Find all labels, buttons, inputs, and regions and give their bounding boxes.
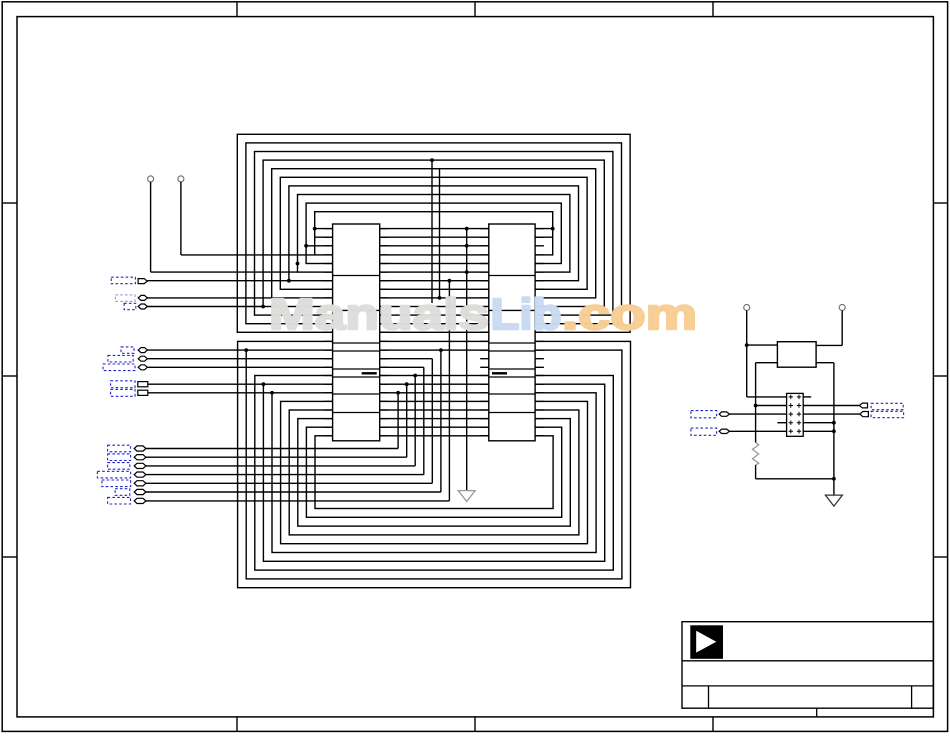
title block outline (682, 622, 933, 709)
resistor R1 zigzag (753, 443, 759, 466)
frame tick left y=203 (2, 202, 17, 204)
wire P5 to U1 (147, 358, 332, 360)
wire P11 horizontal (146, 465, 415, 467)
header J1 row3 wire left (730, 413, 787, 415)
wire bus loop ring 1 (lower block) (238, 341, 631, 587)
connector P13 dashed box (102, 480, 131, 487)
connector P18 pin tag (859, 403, 867, 408)
IC U2 right-side pin stubs (535, 229, 544, 436)
IC U1 section divider 7 (333, 393, 380, 395)
wire bus loop ring 7 (lower block) (289, 410, 579, 535)
connector P16 pin tag (719, 412, 729, 416)
connector P6 pin tag (138, 365, 147, 370)
connector P2 dashed box (115, 295, 135, 302)
wire riser column 2 (406, 384, 408, 457)
header J1 row2 wire right (803, 405, 859, 407)
wire bus loop ring 8 (lower block) (298, 419, 571, 526)
junction dot P7 wire (262, 382, 266, 386)
connector P18 dashed box (871, 403, 903, 409)
connector P19 pin tag (860, 412, 869, 417)
wire R1 bottom down (755, 465, 757, 479)
header J1 row2 wire left (756, 405, 787, 407)
junction dot riser 1 top (396, 391, 400, 395)
title block divider row1 (682, 660, 933, 662)
ground symbol right (825, 495, 842, 506)
junction dot U2 228.6 (551, 227, 555, 231)
IC U1 section divider 6 (333, 376, 380, 378)
wire bus loop ring 10 (lower block) (315, 436, 553, 509)
frame tick bottom x=237 (236, 717, 238, 732)
connector P9 dashed box (108, 445, 131, 452)
wire net VC vertical (448, 281, 450, 501)
IC U2 section divider 7 (489, 393, 535, 395)
header J1 row1 stub right (803, 396, 811, 398)
connector P4 pin tag (138, 348, 147, 353)
frame tick bottom x=713 (712, 717, 714, 732)
wire from terminal B down (180, 182, 182, 255)
connector P17 dashed box (691, 428, 717, 435)
IC U1 section divider 2 (333, 309, 380, 311)
terminal circle D (839, 305, 845, 311)
frame tick left y=376 (2, 375, 17, 377)
connector P1 dashed box (111, 277, 135, 284)
wire bus loop ring 3 (lower block) (255, 376, 614, 571)
connector P14 pin tag (134, 489, 146, 494)
op IC U2 body (489, 224, 535, 441)
IC U2 section divider 8 (489, 412, 535, 414)
wire P2 to bus ring 5 (147, 297, 271, 299)
header J1 pin cross marks (789, 395, 802, 434)
frame tick top x=237 (236, 2, 238, 17)
connector P3 pin tag (138, 304, 147, 309)
IC U1 section divider 3 (333, 342, 380, 344)
junction dot riser 6 top (439, 348, 443, 352)
wire bus loop ring 1 (upper block) (237, 134, 630, 332)
wire bus loop ring 4 (lower block) (263, 384, 604, 561)
wire terminal C down (746, 311, 748, 397)
connector P19 dashed box (871, 411, 904, 417)
wire bus loop ring 7 (upper block) (289, 186, 579, 281)
logo black square (690, 625, 723, 659)
connector P1 pin tag (138, 279, 147, 284)
junction dot VR row2 (754, 404, 758, 408)
wire riser column 6 (440, 350, 442, 492)
connector P16 dashed box (691, 411, 717, 418)
wire P9 horizontal (146, 448, 398, 450)
wire terminal D down (841, 311, 843, 346)
IC U2 section divider 1 (489, 275, 535, 277)
wire U2 to ring10 right y=228.6 (535, 228, 553, 230)
junction dot GND net 3 (465, 270, 469, 274)
wire net VR vertical (755, 363, 757, 443)
wire ring10 tap to U1 y=237.2 (315, 236, 333, 238)
wire terminal A to bus ring 8 (151, 271, 298, 273)
junction dot GND net 2 (465, 244, 469, 248)
connector P8 pin tag (138, 390, 148, 395)
IC U1 section divider 1 (333, 275, 380, 277)
connector P8 dashed box (111, 389, 135, 396)
frame tick right y=557 (933, 556, 947, 558)
wire bus loop ring 2 (lower block) (246, 350, 622, 579)
connector P5 pin tag (138, 356, 147, 361)
frame tick bottom x=475 (474, 717, 476, 732)
junction dot right vertical row5 (832, 429, 836, 433)
IC U2 section divider 3 (489, 342, 535, 344)
header J1 body (787, 393, 804, 436)
wire P13 horizontal (146, 482, 432, 484)
wire to T1 left (747, 344, 778, 346)
connector P4 dashed box (121, 347, 134, 353)
wire bus loop ring 4 (upper block) (263, 160, 604, 306)
wire U2 to ring10 right y=237.2 (535, 236, 553, 238)
junction dot VC top (448, 279, 452, 283)
junction dot 245.8 (304, 244, 308, 248)
wire P1 to bus ring 7 (147, 280, 289, 282)
junction dot VB bottom (438, 296, 442, 300)
wire riser column 1 (397, 393, 399, 449)
wire stub to U1 y=245.8 (306, 245, 333, 247)
wire riser column 3 (414, 376, 416, 466)
wire P4 to lower ring 2 (147, 349, 246, 351)
junction dot 228.6 (313, 227, 317, 231)
frame tick right y=376 (933, 375, 947, 377)
terminal circle A (148, 176, 154, 182)
wire U1 to riser column 5 y=358.7 (380, 358, 433, 360)
connector P13 pin tag (134, 481, 146, 486)
connector P10 pin tag (134, 455, 146, 460)
wire net VA vertical (431, 160, 433, 303)
ground symbol centre (458, 491, 475, 502)
title block cell divider left (708, 686, 710, 708)
wire bottom rail (756, 478, 834, 480)
svg-text:Manuals: Manuals (269, 291, 489, 339)
wire T1 left lower tap (756, 362, 778, 364)
wire bus loop ring 6 (lower block) (281, 401, 588, 543)
junction dot GND net 1 (465, 227, 469, 231)
wire P10 horizontal (146, 456, 407, 458)
frame tick top x=713 (712, 2, 714, 17)
wire ring10 tap to U1 y=228.6 (315, 228, 333, 230)
connector P5 dashed box (108, 355, 133, 362)
header J1 row4 wire right (803, 422, 834, 424)
wire bus loop ring 9 (upper block) (306, 203, 561, 263)
IC U2 section divider 6 (489, 376, 535, 378)
IC U1 section divider 5 (333, 368, 380, 370)
IC U2 section divider 4 (489, 350, 535, 352)
wire from terminal A down (150, 182, 152, 272)
connector P7 pin tag (138, 382, 148, 387)
frame tick right y=203 (933, 202, 947, 204)
wire net right vertical to ground (833, 363, 835, 495)
junction dot bottom rail (832, 477, 836, 481)
IC U1 left-side pin stubs (324, 229, 333, 436)
frame tick top x=475 (474, 2, 476, 17)
wire bus loop ring 5 (upper block) (272, 169, 596, 298)
connector P2 pin tag (138, 295, 147, 300)
wire P15 horizontal (146, 500, 450, 502)
terminal circle B (178, 176, 184, 182)
junction dot P4 wire (244, 348, 248, 352)
logo white triangle (696, 631, 716, 653)
op IC U1 body (333, 224, 380, 441)
junction dot P1 wire (287, 279, 291, 283)
wire P14 horizontal (146, 491, 441, 493)
connector P7 dashed box (111, 381, 135, 388)
wire P3 to bus ring 4 (147, 306, 263, 308)
wire bus loop ring 9 (lower block) (306, 427, 561, 517)
header J1 row5 wire left (730, 430, 787, 432)
connector P15 pin tag (134, 498, 146, 503)
connector P11 dashed box (108, 463, 130, 470)
IC U1 section divider 8 (333, 412, 380, 414)
wire net VB vertical (439, 169, 441, 298)
connector P10 dashed box (108, 454, 131, 461)
wire bus loop ring 2 (upper block) (246, 143, 622, 324)
svg-text:.com: .com (562, 291, 697, 339)
IC U1 label bar (362, 372, 377, 374)
wire bus loop ring 10 (upper block) (315, 212, 553, 255)
wire U1-U2 interconnect y=237.2 (380, 236, 489, 238)
wire bus loop ring 3 (upper block) (255, 152, 613, 316)
frame tick below title block x=817 (816, 708, 818, 717)
wire bus loop ring 6 (upper block) (280, 177, 587, 289)
IC U1 section divider 4 (333, 350, 380, 352)
connector P14 dashed box (115, 489, 130, 496)
wire P7 to lower ring 4 (148, 383, 264, 385)
wire riser column 4 (423, 367, 425, 474)
junction dot riser 2 top (405, 382, 409, 386)
terminal circle C (744, 305, 750, 311)
IC U2 left-side pin stubs (480, 229, 489, 436)
header J1 row4 stub left (777, 422, 786, 424)
IC U1 right-side pin stubs (380, 229, 389, 436)
wire to T1 right (816, 344, 842, 346)
frame tick left y=557 (2, 556, 17, 558)
wire riser column 5 (431, 359, 433, 484)
connector P15 dashed box (108, 497, 131, 504)
junction dot T1 left feed (745, 343, 749, 347)
header J1 row5 wire right (803, 430, 834, 432)
transformer T1 body (777, 342, 816, 368)
wire U1-U2 interconnect y=228.6 (380, 228, 489, 230)
title block divider row2 (682, 685, 933, 687)
connector P9 pin tag (134, 446, 146, 451)
junction dot riser 3 top (413, 374, 417, 378)
wire P12 horizontal (146, 474, 424, 476)
wire U1-U2 interconnect y=245.8 (380, 245, 489, 247)
svg-text:Lib: Lib (491, 291, 562, 339)
wire bus loop ring 8 (upper block) (298, 195, 570, 273)
header J1 row1 wire left (747, 396, 787, 398)
wire P6 to U1 (147, 366, 332, 368)
wire P8 to lower ring 5 (148, 392, 272, 394)
connector P3 dashed box (124, 303, 136, 309)
connector P17 pin tag (719, 429, 729, 433)
wire bus loop ring 5 (lower block) (272, 393, 596, 553)
junction dot VA top (430, 158, 434, 162)
IC U2 section divider 2 (489, 309, 535, 311)
wire T1 right lower tap (816, 362, 834, 364)
IC U2 label bar (492, 372, 507, 374)
title block cell divider right (911, 686, 913, 708)
wire net GND vertical (466, 229, 468, 491)
header J1 row3 wire right (803, 413, 860, 415)
connector P6 dashed box (103, 364, 135, 371)
wire terminal B to bus ring 10 (181, 254, 315, 256)
connector P11 pin tag (134, 463, 146, 468)
junction dot P3 wire (261, 305, 265, 309)
IC U2 section divider 5 (489, 368, 535, 370)
wire U1 to riser column 4 y=367.3 (380, 366, 424, 368)
connector P12 pin tag (134, 472, 146, 477)
junction dot right vertical row4 (832, 421, 836, 425)
connector P12 dashed box (97, 471, 130, 478)
junction dot 263.5 (296, 262, 300, 266)
junction dot P8 wire (270, 391, 274, 395)
